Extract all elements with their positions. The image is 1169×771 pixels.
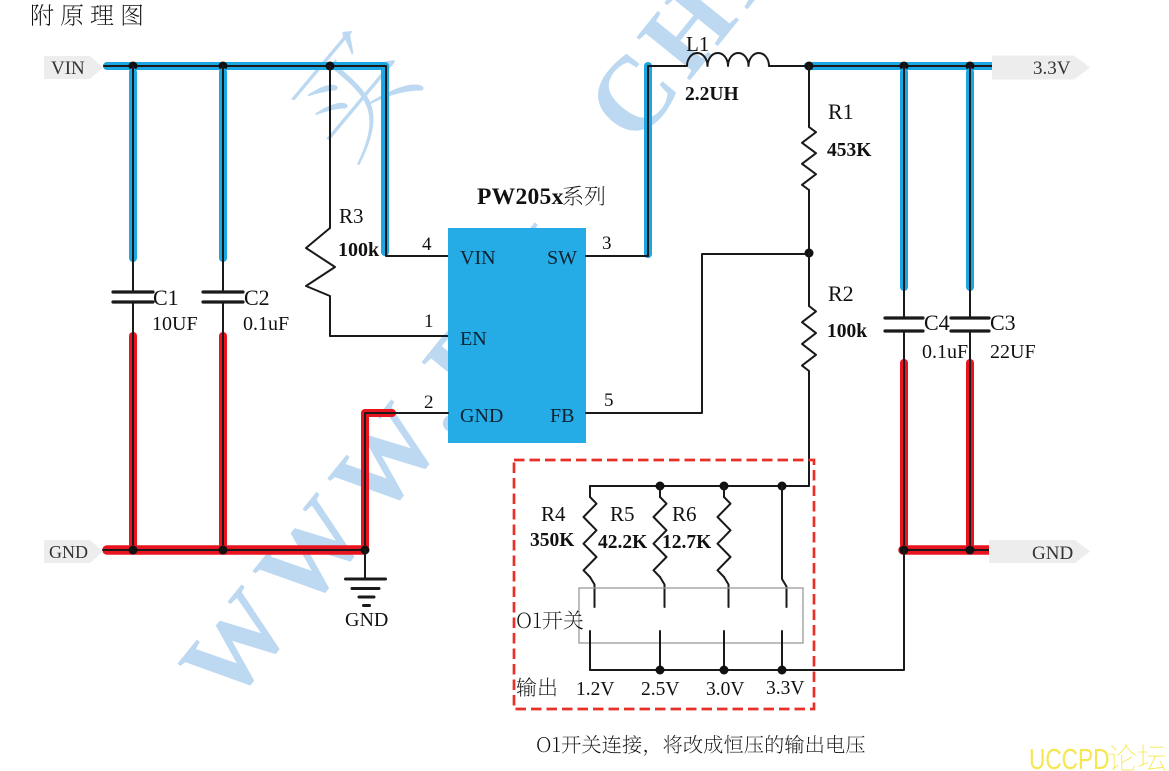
- label R4: [541, 502, 566, 526]
- junction FB divider: [805, 249, 814, 258]
- label C2 value 0.1uF: [243, 313, 289, 335]
- svg-text:UCCPD: UCCPD: [1029, 742, 1109, 771]
- wire C1 to ground bus: [129, 302, 137, 550]
- junction top rail R5: [656, 482, 665, 491]
- net flag GND left: [44, 540, 103, 563]
- label ground GND: [345, 609, 388, 631]
- svg-text:22UF: 22UF: [990, 341, 1036, 363]
- junction VIN C2: [219, 62, 228, 71]
- wire selector output rail to ground bus: [590, 550, 904, 670]
- wire R1 top: [808, 66, 810, 127]
- junction right bus C3: [966, 546, 975, 555]
- junction bus R1: [805, 62, 814, 71]
- junction VIN C1: [129, 62, 138, 71]
- wire output 3.3V bus: [769, 62, 995, 70]
- net flag 3.3V: [992, 56, 1090, 80]
- junction top rail 3.3V tap: [778, 482, 787, 491]
- svg-text:R4: R4: [541, 502, 566, 526]
- capacitor C3: [951, 318, 989, 331]
- svg-text:100k: 100k: [827, 321, 867, 342]
- label IC title PW205x系列: [477, 184, 605, 210]
- label output 1.2V: [576, 679, 614, 700]
- junction output rail R5: [656, 666, 665, 675]
- label L1: [686, 32, 709, 56]
- svg-text:2.5V: 2.5V: [641, 679, 679, 700]
- label output 3.3V: [766, 678, 804, 699]
- wire R2 top: [808, 253, 810, 306]
- svg-text:R5: R5: [610, 502, 635, 526]
- pin number 4: [422, 234, 432, 255]
- svg-text:PW205x: PW205x: [477, 184, 564, 210]
- IC pin name EN: [460, 328, 487, 350]
- svg-text:3.3V: 3.3V: [766, 678, 804, 699]
- label C1: [153, 285, 179, 310]
- svg-text:GND: GND: [49, 542, 88, 562]
- wire switch output 2.5V: [659, 631, 661, 670]
- label switch O1开关: [517, 611, 583, 630]
- label C2: [244, 285, 270, 310]
- wire C4 branch: [900, 66, 908, 318]
- capacitor C2: [203, 292, 243, 302]
- svg-text:EN: EN: [460, 328, 487, 350]
- svg-text:C2: C2: [244, 285, 270, 310]
- resistor R4: [584, 486, 597, 607]
- watermark forum UCCPD论坛: [1029, 742, 1165, 771]
- wire ground bus right: [903, 545, 999, 555]
- label output 2.5V: [641, 679, 679, 700]
- label R1 value 453K: [827, 140, 872, 161]
- svg-text:VIN: VIN: [460, 247, 496, 269]
- svg-text:FB: FB: [550, 405, 574, 427]
- svg-text:42.2K: 42.2K: [598, 532, 648, 553]
- wire pin 3 SW to inductor: [586, 66, 686, 256]
- svg-text:1: 1: [424, 311, 434, 332]
- wire C3 branch: [966, 66, 974, 318]
- wire switch output 3.0V: [723, 631, 725, 670]
- label R3 value 100k: [338, 239, 380, 261]
- junction output rail R6: [720, 666, 729, 675]
- label C3: [990, 310, 1016, 335]
- label R2: [828, 281, 854, 306]
- junction bus C4: [900, 62, 909, 71]
- label C4: [924, 310, 950, 335]
- junction top rail R6: [720, 482, 729, 491]
- svg-text:VIN: VIN: [51, 58, 85, 79]
- wire pin 1 EN: [330, 335, 448, 337]
- svg-text:R2: R2: [828, 281, 854, 306]
- svg-text:0.1uF: 0.1uF: [243, 313, 289, 335]
- label R1: [828, 99, 854, 124]
- junction left bus C1: [129, 546, 138, 555]
- junction left bus GND pin: [361, 546, 370, 555]
- wire ground bus left: [103, 545, 368, 555]
- label R2 value 100k: [827, 321, 867, 342]
- output selector dashed box: [514, 460, 814, 709]
- svg-text:350K: 350K: [530, 530, 575, 551]
- wire C3 to ground bus: [966, 331, 974, 550]
- label R5 value 42.2K: [598, 532, 648, 553]
- svg-text:2.2UH: 2.2UH: [685, 84, 739, 105]
- inductor L1: [687, 53, 769, 66]
- wire C1 branch: [129, 66, 137, 291]
- wire pin 5 FB to divider: [586, 254, 805, 413]
- label R4 value 350K: [530, 530, 575, 551]
- pin number 5: [604, 390, 614, 411]
- IC pin name FB: [550, 405, 574, 427]
- label R3: [339, 204, 364, 228]
- svg-text:3.3V: 3.3V: [1033, 58, 1071, 79]
- svg-text:100k: 100k: [338, 239, 380, 261]
- resistor R6: [718, 486, 731, 607]
- net flag GND right: [989, 540, 1090, 564]
- wire pin 2 GND: [365, 413, 448, 550]
- svg-text:R6: R6: [672, 502, 697, 526]
- svg-text:GND: GND: [1032, 543, 1073, 564]
- svg-text:4: 4: [422, 234, 432, 255]
- svg-text:5: 5: [604, 390, 614, 411]
- svg-text:L1: L1: [686, 32, 709, 56]
- svg-text:C1: C1: [153, 285, 179, 310]
- resistor R2: [802, 306, 816, 371]
- caption O1开关连接，将改成恒压的输出电压: [537, 735, 865, 756]
- pin number 3: [602, 233, 612, 254]
- label C3 value 22UF: [990, 341, 1036, 363]
- label C4 value 0.1uF: [922, 341, 968, 363]
- ground symbol: [346, 550, 386, 606]
- IC U1 PW205x: [448, 228, 586, 443]
- pin number 2: [424, 392, 434, 413]
- pin number 1: [424, 311, 434, 332]
- IC pin name VIN: [460, 247, 496, 269]
- switch O1 box: [579, 588, 803, 643]
- wire R1 bottom: [808, 190, 810, 253]
- wire 3.3V tap: [782, 486, 787, 607]
- label R6: [672, 502, 697, 526]
- wire C2 to ground bus: [219, 302, 227, 550]
- svg-text:1.2V: 1.2V: [576, 679, 614, 700]
- svg-text:12.7K: 12.7K: [662, 532, 712, 553]
- label L1 value 2.2UH: [685, 84, 739, 105]
- svg-text:R1: R1: [828, 99, 854, 124]
- junction VIN R3: [326, 62, 335, 71]
- wire C4 to ground bus: [900, 331, 908, 550]
- svg-text:R3: R3: [339, 204, 364, 228]
- label R6 value 12.7K: [662, 532, 712, 553]
- wire R2 bottom: [808, 371, 810, 486]
- resistor R1: [802, 127, 816, 190]
- schematic title 附原理图: [32, 4, 142, 26]
- resistor R3: [306, 228, 335, 336]
- svg-text:0.1uF: 0.1uF: [922, 341, 968, 363]
- label R5: [610, 502, 635, 526]
- label 输出: [517, 677, 557, 696]
- IC pin name SW: [547, 247, 577, 269]
- wire switch output 3.3V: [781, 631, 783, 670]
- svg-text:CHIP: CHIP: [563, 0, 839, 161]
- wire VIN bus to pin 4: [104, 66, 448, 256]
- wire divider to selector top rail: [590, 485, 809, 487]
- net flag VIN: [44, 56, 103, 79]
- svg-text:2: 2: [424, 392, 434, 413]
- svg-text:10UF: 10UF: [152, 313, 198, 335]
- junction output rail 3.3V: [778, 666, 787, 675]
- capacitor C1: [113, 292, 153, 302]
- capacitor C4: [885, 318, 923, 331]
- IC pin name GND: [460, 405, 503, 427]
- svg-text:GND: GND: [460, 405, 503, 427]
- resistor R5: [654, 486, 667, 607]
- svg-text:3.0V: 3.0V: [706, 679, 744, 700]
- wire switch output 1.2V: [589, 631, 591, 670]
- wire R3 top: [329, 66, 331, 228]
- svg-text:3: 3: [602, 233, 612, 254]
- svg-text:C3: C3: [990, 310, 1016, 335]
- label C1 value 10UF: [152, 313, 198, 335]
- svg-text:453K: 453K: [827, 140, 872, 161]
- label output 3.0V: [706, 679, 744, 700]
- junction left bus C2: [219, 546, 228, 555]
- svg-text:C4: C4: [924, 310, 950, 335]
- wire C2 branch: [219, 66, 227, 291]
- svg-text:GND: GND: [345, 609, 388, 631]
- junction bus C3: [966, 62, 975, 71]
- svg-text:SW: SW: [547, 247, 577, 269]
- junction right bus C4: [900, 546, 909, 555]
